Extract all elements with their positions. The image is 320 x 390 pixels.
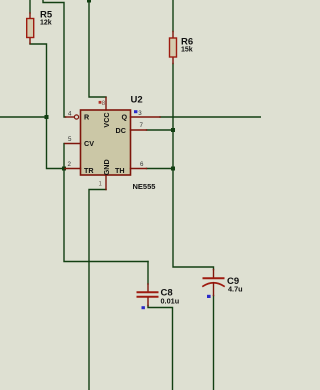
svg-text:Q: Q (122, 113, 128, 122)
wire C8 bottom jog down (148, 306, 173, 390)
wire TR node down to C8 top (64, 169, 148, 262)
resistor R6 (170, 32, 177, 64)
value 0.01u (161, 297, 180, 306)
pin number 4 (68, 111, 72, 118)
svg-text:GND: GND (102, 159, 111, 175)
svg-text:U2: U2 (131, 94, 143, 105)
pin name TR (84, 166, 94, 175)
wire C8 top lead (147, 262, 149, 285)
node A junction dot (45, 115, 49, 119)
svg-text:4.7u: 4.7u (228, 285, 243, 294)
pin Q stub (131, 116, 161, 118)
wire C9 bottom down (213, 296, 215, 390)
pin GND stub (105, 175, 107, 190)
value 15k (181, 46, 193, 53)
svg-text:12k: 12k (40, 20, 52, 27)
pin number 3 (138, 110, 142, 117)
junction dot TH rail (171, 167, 175, 171)
svg-text:TH: TH (115, 166, 125, 175)
pin number 5 (68, 136, 72, 143)
wire R6 top feed (172, 0, 174, 32)
label C8 (161, 288, 173, 299)
svg-text:CV: CV (84, 139, 94, 148)
svg-text:R: R (84, 113, 90, 122)
pin number 2 (68, 161, 72, 168)
wire TH to rail (147, 168, 174, 170)
label R5 (40, 10, 53, 21)
svg-text:3: 3 (138, 110, 142, 117)
wire VCC feed from top (89, 0, 106, 97)
pin TR stub (65, 168, 81, 170)
wire top-left L down to pin 4 (43, 0, 66, 117)
label C9 (227, 276, 239, 287)
pin name VCC (rotated) (102, 112, 111, 127)
wire R6 bottom rail down to C9 (173, 64, 214, 270)
pin CV stub (65, 143, 81, 145)
value 4.7u (228, 285, 243, 294)
wire R5 bottom jog to node column (30, 44, 47, 118)
pin name R (84, 113, 90, 122)
pin VCC stub (105, 98, 107, 111)
IC U2 NE555 body (81, 110, 131, 175)
svg-text:2: 2 (68, 161, 72, 168)
pin number 8 (102, 101, 106, 107)
label R6 (181, 36, 193, 47)
logic state square at C9 (blue) (207, 295, 211, 298)
svg-text:5: 5 (68, 136, 72, 143)
pin R stub with bubble (66, 115, 79, 119)
label U2 (131, 94, 143, 105)
wire DC to rail (147, 129, 174, 131)
svg-text:VCC: VCC (102, 112, 111, 127)
svg-text:DC: DC (116, 126, 126, 135)
svg-text:4: 4 (68, 111, 72, 118)
pin TH stub (131, 168, 147, 170)
logic state square pin 3 (blue) (134, 110, 137, 113)
logic state square at C8 bottom (blue) (142, 306, 145, 309)
logic state square pin 8 (red) (99, 101, 102, 104)
capacitor C8 (138, 284, 158, 306)
junction dot TR node (62, 167, 66, 171)
wire node column down and right to TR junction (47, 117, 65, 169)
svg-text:6: 6 (140, 161, 144, 168)
svg-text:7: 7 (140, 122, 144, 129)
wire left horizontal into node A (0, 116, 47, 118)
svg-text:0.01u: 0.01u (161, 297, 180, 306)
resistor R5 (27, 13, 34, 44)
capacitor C9 (polarized) (203, 270, 224, 296)
svg-text:15k: 15k (181, 46, 193, 53)
junction dot DC rail (171, 128, 175, 132)
pin name Q (122, 113, 128, 122)
pin name GND (rotated) (102, 159, 111, 175)
pin name DC (116, 126, 126, 135)
pin number 7 (140, 122, 144, 129)
value 12k (40, 20, 52, 27)
junction dot top of VCC feed (87, 0, 91, 3)
svg-text:TR: TR (84, 166, 94, 175)
pin DC stub (131, 129, 147, 131)
wire Q output to right edge (160, 116, 261, 118)
pin number 1 (99, 182, 103, 188)
svg-text:NE555: NE555 (133, 182, 156, 191)
label NE555 (133, 182, 156, 191)
pin number 6 (140, 161, 144, 168)
wire CV down to TR junction (63, 144, 65, 169)
pin name TH (115, 166, 125, 175)
wire GND pin down to bottom (89, 190, 106, 390)
wire top feed to R5 (29, 0, 31, 13)
pin name CV (84, 139, 94, 148)
